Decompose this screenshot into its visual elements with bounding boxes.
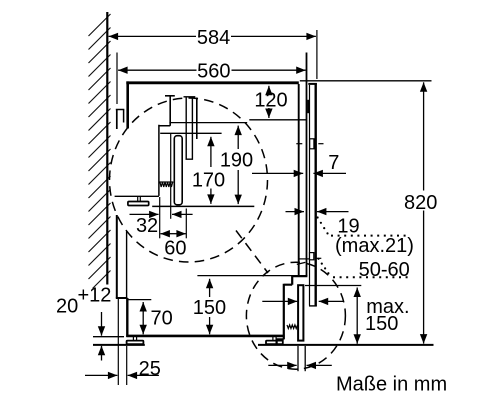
door bottom cap [309, 305, 317, 307]
dim 32 arrows [130, 213, 193, 215]
bottom circle [246, 262, 345, 369]
T foot stem [138, 197, 141, 202]
dim 150 reference line [197, 275, 292, 277]
svg-text:60: 60 [164, 237, 186, 259]
diagonal step mark [297, 262, 306, 264]
furniture door front line [315, 83, 317, 306]
dim 150 arrows [209, 279, 211, 335]
channel serration [160, 181, 174, 183]
appliance left edge [126, 81, 129, 128]
svg-text:20: 20 [56, 296, 78, 318]
baseboard step line [116, 297, 128, 299]
plinth serration [287, 325, 298, 329]
door back line [309, 85, 311, 306]
dim 7 arrows [252, 172, 346, 174]
svg-text:32: 32 [136, 215, 158, 237]
svg-text:7: 7 [328, 152, 339, 174]
120 bottom reference line [249, 119, 306, 121]
H1 line (190 ref) [169, 122, 247, 124]
tube with cap [184, 97, 196, 159]
svg-text:70: 70 [151, 307, 173, 329]
T post 1 [165, 96, 175, 126]
dim 60 arrows [160, 233, 186, 235]
hinge lower center dashes [296, 143, 323, 145]
left foot stem [133, 337, 136, 341]
clip line left [299, 258, 309, 260]
T foot line [115, 195, 159, 197]
70 reference line [127, 299, 151, 301]
dim 190 arrows [237, 126, 239, 205]
big detail circle [110, 98, 268, 262]
door thickness arrows [286, 211, 349, 213]
dim max150 arrow [356, 288, 358, 344]
plinth arrows [262, 300, 343, 302]
appliance left edge lower thin [126, 232, 128, 299]
plinth extension lines below floor [298, 346, 305, 371]
clip lower [310, 253, 314, 260]
appliance left edge bottom thick [126, 298, 128, 337]
right extension line for 25 [126, 346, 128, 385]
plinth bottom thin line [93, 336, 124, 338]
dotted leader 50-60 [317, 258, 329, 275]
dim 584 line [109, 35, 316, 37]
H2 line (170 ref) [160, 132, 221, 134]
svg-text:170: 170 [192, 170, 225, 192]
dim 120 [268, 86, 270, 118]
circle baseline [152, 205, 254, 207]
thin top reference line [300, 80, 432, 82]
svg-text:150: 150 [365, 313, 398, 335]
svg-text:820: 820 [404, 192, 437, 214]
svg-text:50-60: 50-60 [359, 259, 410, 281]
appliance bottom thick line [126, 335, 284, 338]
right foot stem [273, 337, 276, 341]
screw line [196, 98, 198, 140]
bottom right profile [277, 275, 308, 345]
svg-text:190: 190 [220, 150, 253, 172]
floor line right segment [258, 344, 434, 346]
plinth panel [298, 285, 303, 340]
max150 reference line [305, 285, 361, 287]
svg-text:150: 150 [193, 297, 226, 319]
wall hatching [89, 14, 111, 289]
T foot pad [128, 202, 149, 206]
left foot pad [127, 341, 144, 345]
left channel step [159, 125, 170, 196]
hinge upper (filled) [307, 100, 309, 113]
right foot pad [266, 341, 283, 345]
svg-text:25: 25 [139, 358, 161, 380]
left extension line for 25 [117, 299, 119, 386]
clip dash right [316, 257, 322, 259]
door gap line (560 right ext) [306, 53, 308, 277]
dim 170 arrows [210, 137, 212, 204]
bottom unlabeled arrows [268, 364, 332, 366]
560 left extension line [116, 53, 118, 105]
svg-text:+12: +12 [78, 284, 112, 306]
door area: appliance front line [298, 84, 300, 275]
rail slot [174, 136, 182, 205]
dim 20+12 arrows [101, 312, 103, 361]
dim 70 arrows [142, 302, 144, 334]
svg-text:(max.21): (max.21) [335, 235, 414, 257]
back bracket cap [116, 109, 125, 111]
hinge lower [310, 139, 314, 149]
32 extension lines [160, 134, 187, 238]
svg-text:560: 560 [197, 60, 230, 82]
584 right extension line [316, 30, 318, 79]
dotted leader 19 [317, 216, 329, 234]
back bracket leg [123, 110, 125, 123]
dim 25 arrows [85, 374, 159, 376]
dim 820 [423, 82, 425, 343]
floor line [93, 344, 145, 346]
svg-text:584: 584 [197, 27, 230, 49]
door top cap [308, 83, 317, 85]
leader between circles [236, 231, 268, 274]
wall line [106, 12, 108, 285]
svg-text:Maße in mm: Maße in mm [336, 374, 447, 396]
svg-text:120: 120 [254, 90, 287, 112]
appliance top thick line [126, 81, 298, 84]
machine back panel line [116, 110, 118, 130]
dim 560 line [118, 69, 306, 71]
